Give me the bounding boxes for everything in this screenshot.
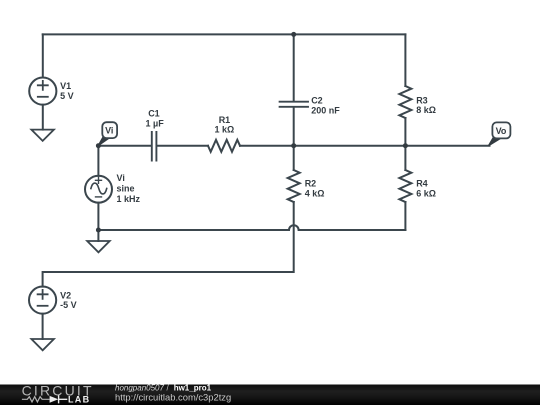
voltage source V2: [29, 287, 56, 314]
junction node rail / C2 R2: [291, 143, 296, 148]
svg-text:5 V: 5 V: [60, 91, 74, 101]
wire V2 bottom: [42, 314, 44, 339]
label Vi source value: [117, 173, 141, 204]
svg-text:200 nF: 200 nF: [311, 106, 340, 116]
wire C2 bottom stub: [293, 108, 295, 146]
svg-text:1 kΩ: 1 kΩ: [215, 125, 235, 135]
wire R4 bottom stub: [404, 202, 406, 230]
footer url line: [115, 391, 231, 402]
wire R2 to V2: [43, 202, 294, 287]
svg-text:http://circuitlab.com/c3p2tzg: http://circuitlab.com/c3p2tzg: [115, 391, 231, 402]
svg-text:sine: sine: [117, 184, 135, 194]
svg-text:6 kΩ: 6 kΩ: [416, 188, 436, 198]
svg-text:V2: V2: [60, 290, 71, 300]
wire V1 bottom: [42, 105, 44, 130]
svg-text:4 kΩ: 4 kΩ: [305, 188, 325, 198]
svg-text:Vi: Vi: [105, 126, 113, 136]
voltage source V1: [29, 78, 56, 105]
resistor R1: [208, 140, 240, 152]
logo lab text: [68, 394, 90, 404]
wire Vi ground stub: [97, 230, 99, 241]
resistor R2: [288, 170, 300, 202]
logo circuit text: [22, 382, 94, 398]
label V1 value: [60, 81, 74, 101]
label R2 value: [305, 179, 325, 199]
source Vi sine: [85, 176, 112, 203]
wire R2 top stub: [293, 146, 295, 170]
label C2 value: [311, 96, 340, 116]
node label Vo: [489, 122, 511, 145]
wire R1 to Vo: [240, 145, 490, 147]
svg-text:Vo: Vo: [496, 126, 507, 136]
svg-text:1 µF: 1 µF: [146, 119, 165, 129]
svg-text:C2: C2: [311, 96, 323, 106]
wire R3 bottom stub: [404, 118, 406, 146]
wire Vi source bottom stub: [97, 203, 99, 230]
wire Vi source top stub: [97, 146, 99, 176]
svg-text:V1: V1: [60, 81, 71, 91]
wire top rail: [43, 33, 406, 35]
logo resistor zigzag: [23, 397, 49, 402]
capacitor C2: [280, 102, 308, 107]
svg-text:R1: R1: [219, 115, 231, 125]
junction node at top rail / C2: [291, 32, 296, 37]
footer bar: [0, 385, 540, 405]
svg-text:R4: R4: [416, 179, 428, 189]
wire Vi node to C1: [98, 145, 151, 147]
label V2 value: [60, 290, 77, 310]
wire C2 top stub: [293, 34, 295, 100]
junction node Vi source bottom: [96, 228, 101, 233]
wire V1 top: [42, 34, 44, 77]
footer title line: [115, 383, 212, 392]
svg-text:LAB: LAB: [68, 394, 90, 404]
ground under Vi: [87, 241, 110, 252]
capacitor C1: [152, 132, 157, 161]
resistor R4: [399, 170, 411, 202]
svg-text:R2: R2: [305, 179, 317, 189]
svg-text:Vi: Vi: [117, 173, 125, 183]
svg-text:R3: R3: [416, 95, 428, 105]
svg-text:C1: C1: [148, 109, 160, 119]
ground under V2: [31, 339, 54, 350]
wire C1 to R1: [157, 145, 208, 147]
logo diode: [50, 396, 67, 403]
svg-text:8 kΩ: 8 kΩ: [416, 105, 436, 115]
wire bottom rail with hop: [98, 225, 405, 230]
label R1 value: [215, 115, 235, 135]
label R3 value: [416, 95, 436, 115]
label C1 value: [146, 109, 165, 129]
label R4 value: [416, 179, 436, 199]
wire R4 top stub: [404, 146, 406, 170]
svg-text:-5 V: -5 V: [60, 300, 77, 310]
svg-text:1 kHz: 1 kHz: [117, 194, 141, 204]
node label Vi: [98, 122, 117, 145]
junction node Vi: [96, 143, 101, 148]
junction node rail / R3 R4: [403, 143, 408, 148]
wire R3 top stub: [404, 34, 406, 86]
ground under V1: [31, 130, 54, 141]
resistor R3: [399, 86, 411, 118]
